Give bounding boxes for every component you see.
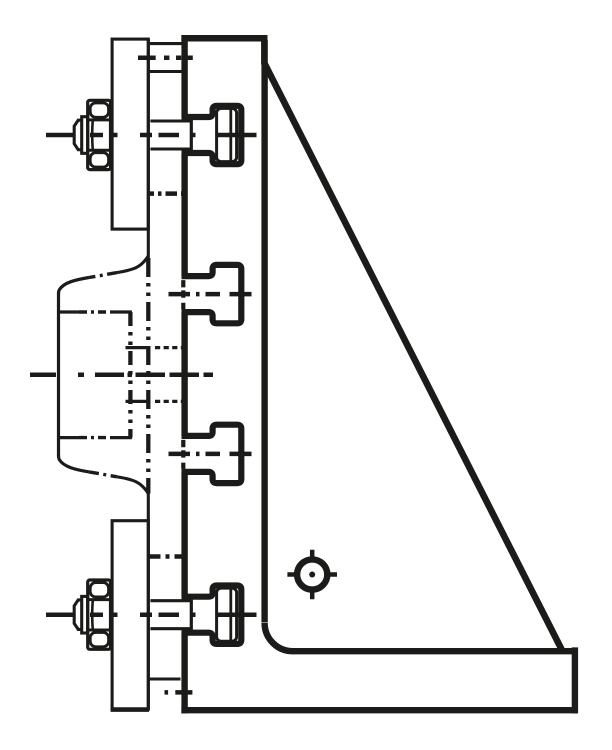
- slot pitch mark top outer: [138, 56, 193, 61]
- plate A bottom resting edge: [111, 707, 149, 712]
- mounting hole circle: [297, 559, 327, 589]
- center line T-slot 3: [169, 452, 252, 457]
- phantom pocket top edge solid parts: [57, 310, 132, 313]
- long vertical joint line (solid portions): [147, 39, 150, 709]
- angle plate inner vertical face: [261, 40, 267, 623]
- T-slot 2 (empty): [182, 265, 242, 323]
- base right edge: [572, 647, 578, 713]
- workpiece left edge: [57, 293, 60, 457]
- main horizontal axis center line: [30, 372, 213, 377]
- workpiece bottom S-curve phantom middle: [89, 472, 117, 477]
- plate B top edge: [150, 42, 182, 45]
- workpiece bore top edge dashed part: [155, 346, 184, 349]
- workpiece bottom S-curve right part: [117, 477, 148, 494]
- mounting hole cross ticks: [287, 550, 337, 600]
- slot pitch mark top inner: [148, 191, 183, 196]
- workpiece bore bottom edge dashed part: [155, 400, 184, 403]
- inner corner fillet: [265, 623, 293, 651]
- T-slot 3 (empty): [182, 425, 242, 483]
- workpiece top S-curve left part: [59, 278, 90, 295]
- phantom pocket right edge (dash-dot): [128, 312, 132, 438]
- phantom pocket top edge dashed part: [79, 310, 110, 313]
- angle plate gusset hypotenuse (diagonal): [264, 62, 562, 651]
- plate B bottom edge: [148, 677, 180, 680]
- phantom pocket bottom edge dashed part: [79, 436, 110, 439]
- plate B upper inner edge: [148, 70, 181, 73]
- phantom pocket bottom edge solid parts: [57, 436, 132, 439]
- angle plate top right corner edge: [261, 35, 267, 65]
- workpiece top S-curve right part: [117, 256, 148, 273]
- angle plate left (mounting face) edge: [181, 35, 187, 713]
- joint center line (phantom middle portion): [146, 258, 150, 494]
- angle plate top edge: [181, 35, 267, 42]
- bottom clamping bolt assembly with T-slot 4: [46, 580, 257, 649]
- workpiece bottom S-curve left part: [59, 455, 90, 472]
- top clamping bolt assembly with T-slot 1: [46, 100, 257, 169]
- workpiece top S-curve phantom middle: [89, 273, 117, 278]
- mounting hole center dot: [309, 572, 315, 578]
- slot pitch mark bottom inner: [149, 554, 185, 559]
- clamped plate A bottom: [112, 521, 148, 709]
- clamped plate A top: [112, 39, 148, 229]
- base top surface: [292, 648, 575, 654]
- center line T-slot 2: [169, 292, 252, 297]
- slot pitch mark bottom outer: [165, 690, 193, 695]
- base bottom edge: [181, 707, 578, 713]
- workpiece bore top edge solid part: [126, 346, 151, 349]
- workpiece bore bottom edge solid part: [126, 400, 151, 403]
